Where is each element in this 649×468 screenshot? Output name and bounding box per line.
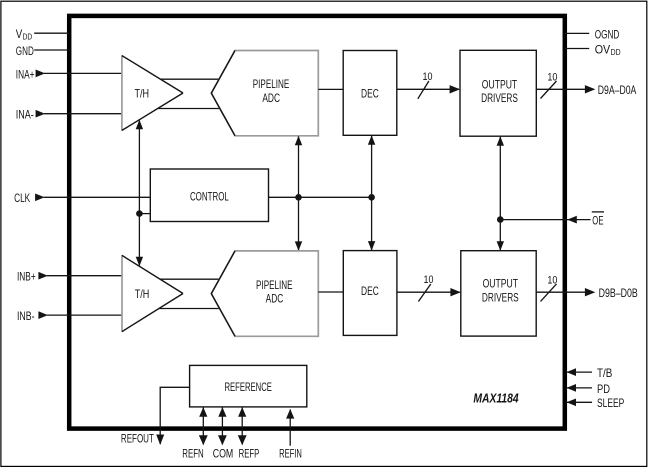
svg-text:INA+: INA+ <box>16 67 35 81</box>
bus slash A1 <box>418 81 429 99</box>
svg-text:OV: OV <box>595 42 611 56</box>
svg-text:T/H: T/H <box>135 287 150 301</box>
wire T/H A output top to PIPELINE ADC A <box>161 78 220 80</box>
bus DEC A to OUTPUT DRIVERS A <box>397 88 459 90</box>
wire OE vertical OUTPUT DRIVERS A / B <box>499 137 501 250</box>
svg-text:OUTPUT: OUTPUT <box>483 277 519 291</box>
arrow INA- <box>36 110 46 118</box>
svg-text:DD: DD <box>611 47 621 57</box>
wire T/H B output top to PIPELINE ADC B <box>160 278 219 280</box>
arrow INA+ <box>36 70 46 78</box>
arrowhead REFP down <box>238 435 247 445</box>
wire REFP <box>241 407 243 445</box>
wire REFIN <box>289 410 291 446</box>
arrow CLK <box>35 193 45 201</box>
amplifier T/H B <box>122 255 183 331</box>
svg-text:D9A–D0A: D9A–D0A <box>598 83 637 97</box>
wire PD <box>566 387 592 389</box>
svg-text:REFIN: REFIN <box>279 447 302 461</box>
wire INB- to T/H B <box>47 314 122 316</box>
wire GND stub <box>34 49 69 51</box>
wire clock vertical to T/H A and T/H B <box>138 121 140 266</box>
svg-text:10: 10 <box>547 71 557 83</box>
arrowhead REFN up <box>199 407 207 417</box>
svg-text:INB-: INB- <box>17 309 35 323</box>
bus slash B1 <box>418 284 430 302</box>
svg-text:PD: PD <box>597 382 610 396</box>
svg-text:REFP: REFP <box>239 447 260 461</box>
svg-text:REFOUT: REFOUT <box>121 432 154 446</box>
arrowhead into PIPELINE ADC A <box>295 136 302 146</box>
arrow INB+ <box>38 272 48 280</box>
arrowhead COM up <box>218 407 226 417</box>
junction OE <box>497 216 504 223</box>
wire T/B <box>566 371 592 373</box>
arrowhead REFN down <box>199 435 208 445</box>
svg-text:OE: OE <box>592 214 603 228</box>
svg-text:GND: GND <box>16 44 34 58</box>
svg-text:V: V <box>16 27 22 41</box>
svg-text:MAX1184: MAX1184 <box>473 391 519 406</box>
junction ADC link <box>295 194 302 201</box>
svg-text:DEC: DEC <box>361 284 379 298</box>
arrowhead into OUTPUT DRIVERS B <box>450 288 460 296</box>
svg-text:ADC: ADC <box>266 292 284 306</box>
svg-text:T/B: T/B <box>597 366 612 380</box>
wire CONTROL out to DEC link <box>269 196 372 198</box>
wire OGND stub <box>565 32 589 34</box>
svg-text:INB+: INB+ <box>17 270 36 284</box>
svg-text:REFERENCE: REFERENCE <box>225 380 272 394</box>
arrowhead into PIPELINE ADC B <box>295 241 302 251</box>
svg-text:PIPELINE: PIPELINE <box>256 278 293 292</box>
svg-text:DEC: DEC <box>361 87 379 101</box>
block OUTPUT DRIVERS B <box>461 251 536 336</box>
svg-text:REFN: REFN <box>182 447 204 461</box>
block PIPELINE ADC B <box>211 251 318 336</box>
arrowhead OE <box>567 216 577 224</box>
arrowhead D9A-D0A <box>585 85 595 93</box>
arrowhead clock into T/H A <box>136 120 143 130</box>
wire INB+ to T/H B <box>47 275 122 277</box>
arrowhead into DEC A <box>368 135 375 145</box>
svg-text:OUTPUT: OUTPUT <box>482 77 518 91</box>
wire CLK to CONTROL <box>44 196 151 198</box>
svg-text:INA-: INA- <box>16 108 34 122</box>
svg-text:10: 10 <box>424 274 434 286</box>
chip boundary MAX1184 <box>69 16 565 429</box>
wire COM <box>221 407 223 445</box>
arrowhead into OUTPUT DRIVERS A <box>450 85 460 93</box>
arrowhead REFIN <box>286 409 294 419</box>
arrowhead COM down <box>218 435 227 445</box>
arrowhead D9B-D0B <box>585 288 595 296</box>
svg-text:DD: DD <box>23 31 32 41</box>
svg-text:10: 10 <box>547 274 557 286</box>
amplifier T/H A <box>122 56 183 131</box>
wire ADC B to DEC B <box>318 291 343 293</box>
block OUTPUT DRIVERS A <box>460 50 536 136</box>
arrowhead T/B <box>567 368 577 376</box>
wire clock stub to CONTROL <box>139 213 150 215</box>
bus slash B2 <box>541 284 557 302</box>
svg-text:COM: COM <box>213 447 234 461</box>
block REFERENCE <box>190 365 307 407</box>
bus OUTPUT DRIVERS B to D9B-D0B <box>536 291 585 293</box>
wire INA+ to T/H A <box>44 72 122 74</box>
arrowhead SLEEP <box>567 398 577 406</box>
bus OUTPUT DRIVERS A to D9A-D0A <box>536 88 585 90</box>
wire ADC A to DEC A <box>318 88 343 90</box>
wire T/H B output bottom to PIPELINE ADC B <box>159 308 220 310</box>
arrowhead into OUTPUT DRIVERS B <box>497 241 504 251</box>
svg-text:10: 10 <box>423 71 433 83</box>
arrow INB- <box>38 311 48 319</box>
wire INA- to T/H A <box>44 113 122 115</box>
svg-text:ADC: ADC <box>262 91 280 105</box>
overline OE <box>592 211 604 213</box>
wire OVDD stub <box>565 48 589 50</box>
block DEC B <box>343 251 397 336</box>
wire control vertical DEC A / DEC B <box>371 136 373 250</box>
arrowhead clock into T/H B <box>136 257 143 267</box>
wire REFOUT <box>160 387 189 444</box>
wire OE <box>500 219 590 221</box>
junction DEC link <box>368 194 375 201</box>
svg-text:OGND: OGND <box>595 27 620 41</box>
svg-text:DRIVERS: DRIVERS <box>481 91 518 105</box>
wire T/H A output bottom to PIPELINE ADC A <box>158 108 220 110</box>
svg-text:CONTROL: CONTROL <box>190 190 229 204</box>
svg-text:CLK: CLK <box>14 191 30 205</box>
wire SLEEP <box>566 401 592 403</box>
arrowhead PD <box>567 384 577 392</box>
arrowhead REFOUT <box>156 435 164 446</box>
junction clock line <box>136 210 143 217</box>
wire REFN <box>202 407 204 445</box>
svg-text:SLEEP: SLEEP <box>597 396 624 410</box>
arrowhead REFP up <box>238 407 246 417</box>
arrowhead into OUTPUT DRIVERS A <box>497 136 504 146</box>
svg-text:D9B–D0B: D9B–D0B <box>599 286 638 300</box>
block DEC A <box>343 51 397 136</box>
svg-text:DRIVERS: DRIVERS <box>482 290 519 304</box>
block PIPELINE ADC A <box>211 51 318 136</box>
block CONTROL <box>150 169 268 222</box>
bus slash A2 <box>541 81 557 99</box>
svg-text:PIPELINE: PIPELINE <box>253 77 290 91</box>
wire VDD stub <box>34 32 69 34</box>
arrowhead into DEC B <box>368 241 375 251</box>
svg-text:T/H: T/H <box>135 87 150 101</box>
bus DEC B to OUTPUT DRIVERS B <box>397 291 460 293</box>
wire control vertical ADC A / ADC B <box>298 137 300 251</box>
